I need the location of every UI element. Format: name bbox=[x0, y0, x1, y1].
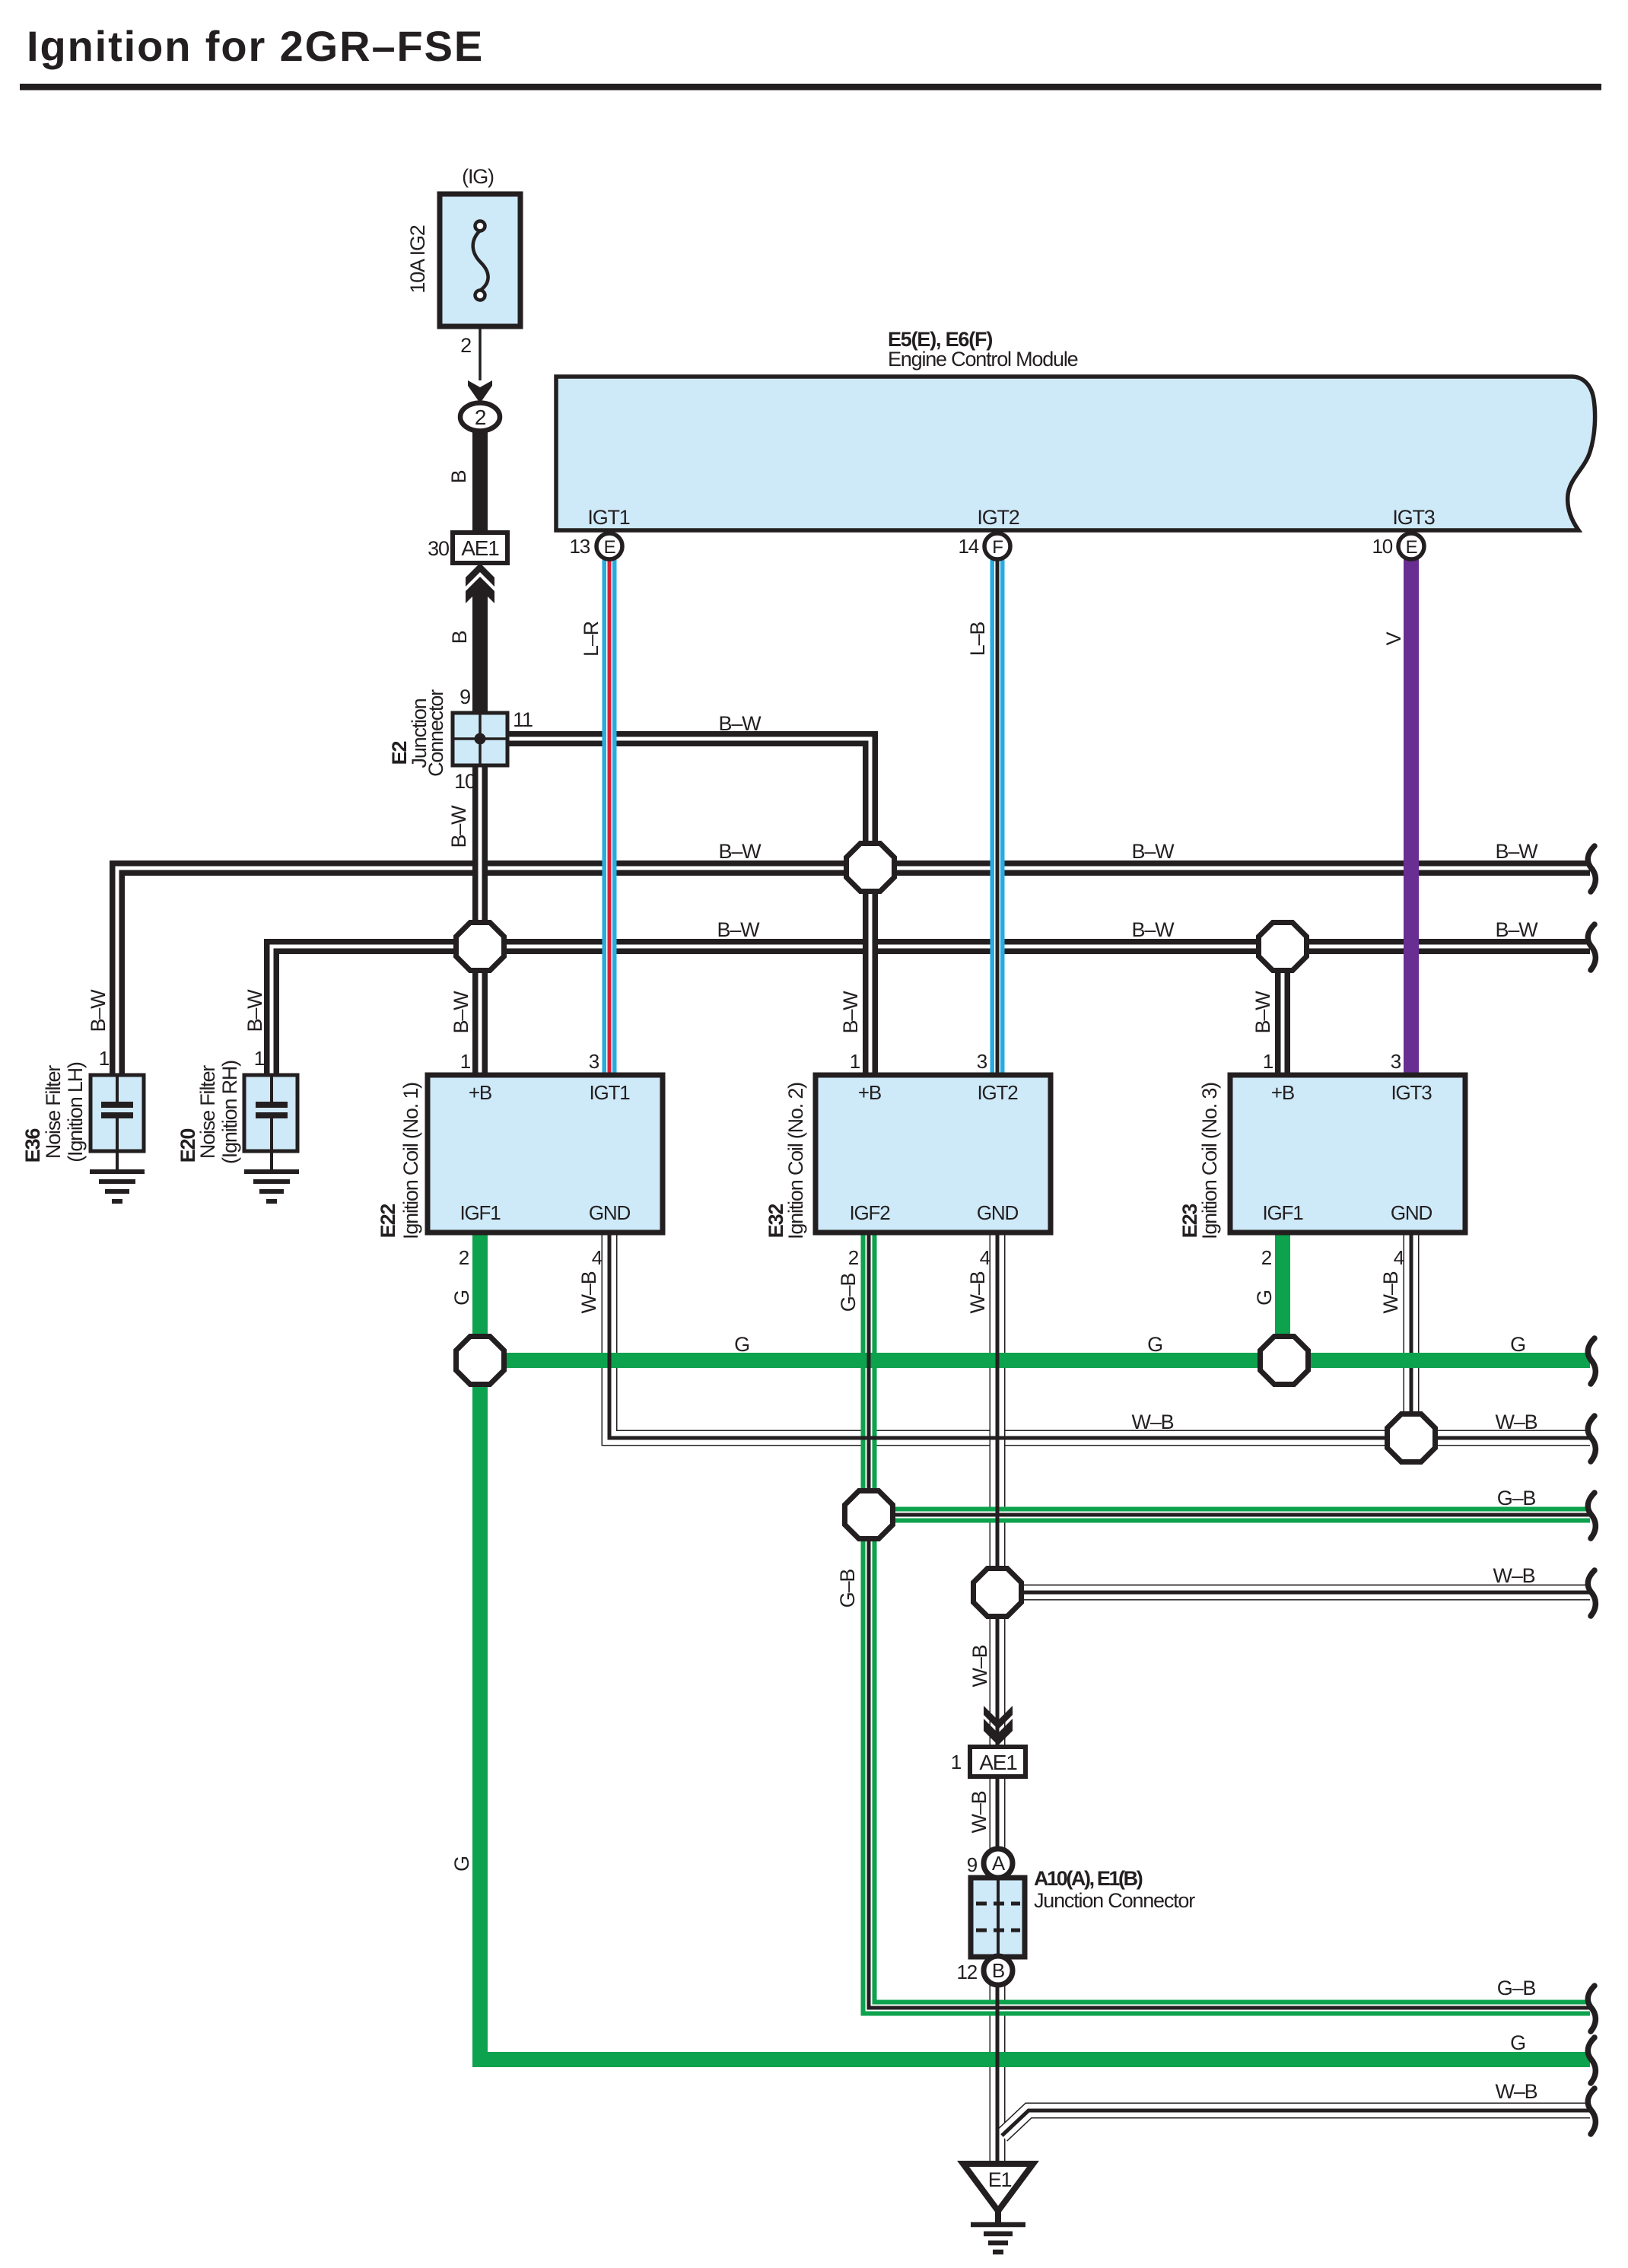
svg-text:G–B: G–B bbox=[1497, 1977, 1536, 1999]
label E32 bbox=[765, 1204, 787, 1239]
arrow down to AE1 opening 1 bbox=[984, 1706, 1013, 1745]
label E23 bbox=[1178, 1204, 1201, 1239]
svg-text:(Ignition LH): (Ignition LH) bbox=[64, 1062, 87, 1163]
svg-text:14: 14 bbox=[958, 535, 978, 558]
svg-text:B–W: B–W bbox=[87, 989, 110, 1032]
ignition coil No.1 E22 box bbox=[428, 1075, 663, 1233]
label B-W drop E36 bbox=[87, 989, 110, 1032]
svg-text:Engine Control Module: Engine Control Module bbox=[888, 348, 1078, 371]
label IGT2 (ECM) bbox=[977, 506, 1019, 529]
ignition coil No.3 E23 pin labels bbox=[1263, 1081, 1432, 1224]
svg-text:Noise Filter: Noise Filter bbox=[42, 1065, 65, 1159]
svg-text:W–B: W–B bbox=[1132, 1411, 1174, 1433]
svg-text:4: 4 bbox=[592, 1246, 603, 1269]
label Junction Connector bbox=[1034, 1889, 1195, 1912]
svg-text:W–B: W–B bbox=[1493, 1564, 1535, 1587]
label B-W line2 left bbox=[717, 918, 761, 941]
pin 9 circle A bbox=[967, 1849, 1013, 1878]
label E22 bbox=[377, 1204, 399, 1239]
svg-text:Connector: Connector bbox=[424, 689, 447, 777]
connector oval 2 bbox=[460, 403, 500, 431]
wire G from coil 1 IGF1 to junction J4 bbox=[472, 1233, 488, 1360]
ignition coil No.2 E32 pin labels bbox=[850, 1081, 1019, 1224]
svg-text:4: 4 bbox=[980, 1246, 990, 1269]
svg-text:10: 10 bbox=[1372, 535, 1392, 558]
label B-W line1 mid bbox=[1132, 840, 1175, 863]
label W-B bus right bbox=[1496, 1411, 1537, 1433]
svg-text:E: E bbox=[604, 537, 615, 558]
svg-text:Noise Filter: Noise Filter bbox=[196, 1065, 219, 1159]
wire W-B from coil 1 GND via junction J6 to right break bbox=[609, 1233, 1590, 1438]
label Noise Filter (E36) bbox=[42, 1065, 65, 1159]
svg-text:2: 2 bbox=[459, 1246, 469, 1269]
title underline bbox=[20, 84, 1601, 91]
label pin 10 bbox=[454, 770, 475, 793]
label G lower right bbox=[1510, 2031, 1525, 2054]
wire B from connector 2 to AE1 opening 30 bbox=[472, 428, 488, 534]
svg-text:W–B: W–B bbox=[577, 1271, 600, 1313]
junction J5 splice bbox=[1261, 1337, 1308, 1385]
pin 14 circle F bbox=[958, 533, 1010, 559]
label W-B coil1 GND bbox=[577, 1271, 600, 1313]
fuse element bbox=[473, 221, 488, 301]
svg-text:(Ignition RH): (Ignition RH) bbox=[218, 1061, 241, 1164]
pin 12 circle B bbox=[956, 1956, 1013, 1985]
label B-W drop coil1 bbox=[450, 991, 472, 1034]
break B-W line 2 bbox=[1588, 924, 1595, 970]
svg-text:+B: +B bbox=[469, 1081, 491, 1104]
label B-W (E2 out) bbox=[719, 712, 762, 735]
label 1 (AE1) bbox=[951, 1751, 962, 1773]
svg-text:9: 9 bbox=[967, 1853, 978, 1876]
junction J2 splice bbox=[456, 923, 504, 971]
wire W-B from coil 2 GND through junction J8 to ground E1 bbox=[990, 1233, 1006, 2165]
label Engine Control Module bbox=[888, 348, 1078, 371]
label W-B below AE1 bbox=[968, 1791, 990, 1833]
label G long run bbox=[450, 1856, 473, 1872]
svg-text:11: 11 bbox=[513, 708, 533, 731]
svg-text:+B: +B bbox=[858, 1081, 881, 1104]
ECM E5/E6 box bbox=[556, 377, 1595, 530]
pin 13 circle E bbox=[569, 533, 622, 559]
svg-text:E36: E36 bbox=[21, 1128, 44, 1163]
label (IG) bbox=[462, 165, 494, 188]
label IGT3 (ECM) bbox=[1392, 506, 1434, 529]
svg-text:G: G bbox=[1147, 1333, 1162, 1356]
wire L-R from ECM IGT1 to coil 1 IGT1 bbox=[603, 558, 617, 1074]
svg-text:W–B: W–B bbox=[1496, 2080, 1537, 2103]
svg-text:B–W: B–W bbox=[1132, 918, 1175, 941]
svg-text:G: G bbox=[1510, 1333, 1525, 1356]
label W-B coil3 GND bbox=[1379, 1271, 1402, 1313]
label B-W line1 left bbox=[719, 840, 762, 863]
label E20 bbox=[176, 1129, 199, 1163]
svg-text:E: E bbox=[1406, 537, 1417, 558]
svg-text:Ignition Coil (No. 2): Ignition Coil (No. 2) bbox=[784, 1083, 807, 1239]
label L-B bbox=[966, 622, 989, 657]
svg-text:W–B: W–B bbox=[968, 1791, 990, 1833]
label B-W drop E20 bbox=[243, 989, 266, 1032]
junction J6 splice bbox=[1388, 1414, 1436, 1462]
wire W-B from junction J8 to right break bbox=[997, 1585, 1590, 1601]
svg-text:G: G bbox=[1510, 2031, 1525, 2054]
svg-text:IGF1: IGF1 bbox=[1263, 1201, 1304, 1224]
label G-B below J7 bbox=[836, 1570, 859, 1608]
break G-B lower bbox=[1588, 1986, 1595, 2031]
ignition coil No.2 E32 pin numbers bbox=[848, 1050, 990, 1269]
svg-text:A10(A), E1(B): A10(A), E1(B) bbox=[1034, 1867, 1143, 1890]
svg-text:+B: +B bbox=[1271, 1081, 1294, 1104]
svg-text:10A IG2: 10A IG2 bbox=[406, 225, 429, 293]
label Connector bbox=[424, 689, 447, 777]
label Ignition Coil (No. 1) bbox=[399, 1083, 422, 1239]
svg-text:B: B bbox=[992, 1959, 1004, 1982]
svg-text:2: 2 bbox=[848, 1246, 859, 1269]
connector AE1 opening 30 box bbox=[453, 533, 507, 563]
label G coil1 IGF1 bbox=[450, 1290, 473, 1306]
svg-text:B–W: B–W bbox=[839, 991, 862, 1034]
label 10A IG2 bbox=[406, 225, 429, 293]
wire V from ECM IGT3 to coil 3 IGT3 bbox=[1404, 558, 1419, 1074]
label B-W (E2 down) bbox=[447, 805, 470, 848]
fuse 10A IG2 (IG) box bbox=[440, 194, 520, 326]
label 30 bbox=[428, 537, 449, 560]
svg-text:IGT1: IGT1 bbox=[587, 506, 629, 529]
svg-text:Ignition for 2GR–FSE: Ignition for 2GR–FSE bbox=[27, 22, 484, 70]
svg-text:2: 2 bbox=[475, 406, 486, 429]
svg-text:G–B: G–B bbox=[837, 1274, 860, 1312]
svg-text:IGT3: IGT3 bbox=[1391, 1081, 1432, 1104]
svg-text:IGT3: IGT3 bbox=[1392, 506, 1434, 529]
junction connector E2 box bbox=[453, 713, 507, 765]
svg-text:Junction Connector: Junction Connector bbox=[1034, 1889, 1195, 1912]
svg-text:1: 1 bbox=[951, 1751, 962, 1773]
label IGT1 (ECM) bbox=[587, 506, 629, 529]
svg-text:2: 2 bbox=[460, 334, 471, 357]
svg-text:B: B bbox=[447, 470, 470, 483]
svg-text:GND: GND bbox=[1391, 1201, 1432, 1224]
wire B-W from junction J3 to coil 3 +B bbox=[1275, 946, 1290, 1075]
svg-text:IGF1: IGF1 bbox=[460, 1201, 501, 1224]
wire G-B from coil 2 IGF2 via junction J7 to lower right break bbox=[869, 1233, 1590, 2008]
wire G long run from junction J4 to lower right break bbox=[480, 1360, 1590, 2060]
label A10(A), E1(B) bbox=[1034, 1867, 1143, 1890]
svg-text:GND: GND bbox=[977, 1201, 1019, 1224]
svg-text:B–W: B–W bbox=[447, 805, 470, 848]
noise filter E36 capacitor bbox=[91, 1075, 144, 1172]
arrow down to connector 2 bbox=[468, 380, 492, 403]
wire G from coil 3 IGF1 to junction J5 bbox=[1275, 1233, 1290, 1360]
label Ignition Coil (No. 3) bbox=[1198, 1083, 1221, 1239]
break G-B branch bbox=[1588, 1493, 1595, 1538]
svg-text:B–W: B–W bbox=[717, 918, 761, 941]
svg-text:W–B: W–B bbox=[968, 1645, 991, 1687]
label pin1 E20 bbox=[254, 1047, 265, 1070]
title Ignition for 2GR-FSE bbox=[27, 22, 484, 70]
label G bus right bbox=[1510, 1333, 1525, 1356]
ground E1 triangle bbox=[963, 2164, 1033, 2223]
svg-text:IGT2: IGT2 bbox=[977, 506, 1019, 529]
svg-text:IGF2: IGF2 bbox=[850, 1201, 891, 1224]
wire B-W from E2 pin 11 to junction J1 bbox=[507, 739, 870, 867]
pin 10 circle E bbox=[1372, 533, 1424, 559]
svg-text:F: F bbox=[992, 537, 1003, 558]
arrow up from AE1 bbox=[466, 563, 494, 603]
break B-W line 1 bbox=[1588, 846, 1595, 892]
svg-text:B–W: B–W bbox=[450, 991, 472, 1034]
svg-text:B–W: B–W bbox=[243, 989, 266, 1032]
ground symbol (E1) bbox=[971, 2225, 1025, 2252]
wire B-W bus line 2 (E20 to right break) bbox=[272, 946, 1590, 1075]
svg-text:Ignition Coil (No. 1): Ignition Coil (No. 1) bbox=[399, 1083, 422, 1239]
label B (fuse feed) bbox=[447, 470, 470, 483]
svg-text:B–W: B–W bbox=[1496, 918, 1539, 941]
wire B-W bus line 1 (E36 to right break) bbox=[117, 868, 1590, 1075]
svg-text:L–B: L–B bbox=[966, 622, 989, 657]
ignition coil No.3 E23 pin numbers bbox=[1261, 1050, 1404, 1269]
svg-text:3: 3 bbox=[977, 1050, 987, 1073]
ground (E36) bbox=[90, 1172, 145, 1201]
svg-text:AE1: AE1 bbox=[979, 1751, 1017, 1774]
svg-text:3: 3 bbox=[589, 1050, 599, 1073]
label G-B branch right bbox=[1497, 1487, 1536, 1509]
label (Ignition RH) bbox=[218, 1061, 241, 1164]
svg-text:12: 12 bbox=[956, 1961, 977, 1983]
label G coil3 IGF1 bbox=[1253, 1290, 1276, 1306]
svg-text:B–W: B–W bbox=[1496, 840, 1539, 863]
label E5(E), E6(F) bbox=[888, 328, 992, 351]
svg-text:9: 9 bbox=[459, 685, 470, 708]
label B-W drop coil2 bbox=[839, 991, 862, 1034]
svg-text:B–W: B–W bbox=[1251, 991, 1274, 1034]
svg-text:13: 13 bbox=[569, 535, 590, 558]
label B-W drop coil3 bbox=[1251, 991, 1274, 1034]
ignition coil No.1 E22 pin labels bbox=[460, 1081, 631, 1224]
label E36 bbox=[21, 1128, 44, 1163]
label pin 9 bbox=[459, 685, 470, 708]
stripe repaint W-B vertical bbox=[996, 1233, 1000, 2165]
label G bus left bbox=[734, 1333, 749, 1356]
break W-B gnd bus bbox=[1588, 1416, 1595, 1462]
break W-B lower bbox=[1588, 2088, 1595, 2134]
junction J8 splice bbox=[974, 1569, 1022, 1617]
junction J4 splice bbox=[456, 1337, 504, 1385]
label B-W line2 mid bbox=[1132, 918, 1175, 941]
svg-text:A: A bbox=[992, 1852, 1006, 1875]
svg-text:AE1: AE1 bbox=[461, 536, 499, 560]
junction J3 splice bbox=[1259, 923, 1307, 971]
label Junction bbox=[408, 698, 431, 768]
wire from fuse pin 2 to arrow bbox=[479, 301, 482, 380]
svg-text:L–R: L–R bbox=[580, 621, 603, 657]
svg-text:G: G bbox=[734, 1333, 749, 1356]
stripe repaint W-B gnd1 run bbox=[609, 1233, 1590, 1438]
svg-text:W–B: W–B bbox=[1496, 1411, 1537, 1433]
label W-B bus mid bbox=[1132, 1411, 1174, 1433]
ground (E20) bbox=[244, 1172, 299, 1201]
break G bus bbox=[1588, 1338, 1595, 1384]
label pin 11 bbox=[513, 708, 533, 731]
svg-text:B: B bbox=[448, 631, 471, 644]
label G-B coil2 IGF2 bbox=[837, 1274, 860, 1312]
label (Ignition LH) bbox=[64, 1062, 87, 1163]
svg-text:3: 3 bbox=[1391, 1050, 1401, 1073]
ignition coil No.3 E23 box bbox=[1230, 1075, 1465, 1233]
label W-B coil2 GND bbox=[966, 1271, 989, 1313]
wire L-B from ECM IGT2 to coil 2 IGT2 bbox=[990, 558, 1005, 1074]
svg-text:GND: GND bbox=[589, 1201, 631, 1224]
label B-W line1 right bbox=[1496, 840, 1539, 863]
wire W-B from coil 3 GND to junction J6 bbox=[1404, 1233, 1420, 1438]
svg-text:1: 1 bbox=[850, 1050, 860, 1073]
ignition coil No.1 E22 pin numbers bbox=[459, 1050, 603, 1269]
break G lower bbox=[1588, 2037, 1595, 2083]
ignition coil No.2 E32 box bbox=[816, 1075, 1051, 1233]
stripe repaint G-B run bbox=[869, 1233, 1590, 2008]
svg-text:E22: E22 bbox=[377, 1204, 399, 1239]
connector AE1 opening 1 box bbox=[970, 1747, 1025, 1777]
label Ignition Coil (No. 2) bbox=[784, 1083, 807, 1239]
wire B-W from E2 pin 10 to coil 1 +B bbox=[472, 765, 488, 1075]
svg-text:(IG): (IG) bbox=[462, 165, 494, 188]
svg-text:Ignition Coil (No. 3): Ignition Coil (No. 3) bbox=[1198, 1083, 1221, 1239]
label B (to E2) bbox=[448, 631, 471, 644]
svg-text:IGT1: IGT1 bbox=[590, 1081, 631, 1104]
svg-text:G: G bbox=[450, 1290, 473, 1306]
stripe repaint G-B branch bbox=[869, 1513, 1590, 1517]
noise filter E20 capacitor bbox=[244, 1075, 297, 1172]
svg-text:B–W: B–W bbox=[719, 712, 762, 735]
svg-text:W–B: W–B bbox=[1379, 1271, 1402, 1313]
label fuse pin 2 bbox=[460, 334, 471, 357]
wire G-B from junction J7 to right break bbox=[869, 1507, 1590, 1523]
svg-text:V: V bbox=[1382, 631, 1405, 645]
label W-B below J8 bbox=[968, 1645, 991, 1687]
svg-text:IGT2: IGT2 bbox=[978, 1081, 1019, 1104]
svg-text:G: G bbox=[450, 1856, 473, 1872]
wire B-W from junction J1 to coil 2 +B bbox=[863, 867, 878, 1074]
label W-B branch right bbox=[1493, 1564, 1535, 1587]
junction J1 splice bbox=[847, 844, 895, 892]
label G bus mid bbox=[1147, 1333, 1162, 1356]
svg-text:10: 10 bbox=[454, 770, 475, 793]
svg-text:1: 1 bbox=[1263, 1050, 1273, 1073]
wire G bus junction J4 to junction J5 to right break bbox=[480, 1353, 1590, 1368]
svg-text:G: G bbox=[1253, 1290, 1276, 1306]
svg-text:1: 1 bbox=[254, 1047, 265, 1070]
label B-W line2 right bbox=[1496, 918, 1539, 941]
label pin1 E36 bbox=[99, 1047, 110, 1070]
svg-text:G–B: G–B bbox=[836, 1570, 859, 1608]
break W-B branch bbox=[1588, 1570, 1595, 1616]
svg-text:G–B: G–B bbox=[1497, 1487, 1536, 1509]
label Noise Filter (E20) bbox=[196, 1065, 219, 1159]
svg-text:B–W: B–W bbox=[1132, 840, 1175, 863]
svg-text:B–W: B–W bbox=[719, 840, 762, 863]
wire B from arrow to junction connector E2 bbox=[472, 587, 488, 715]
svg-text:W–B: W–B bbox=[966, 1271, 989, 1313]
label V bbox=[1382, 631, 1405, 645]
label G-B lower right bbox=[1497, 1977, 1536, 1999]
svg-text:1: 1 bbox=[460, 1050, 471, 1073]
label E2 bbox=[388, 742, 411, 765]
label W-B lower right bbox=[1496, 2080, 1537, 2103]
svg-text:1: 1 bbox=[99, 1047, 110, 1070]
svg-text:4: 4 bbox=[1394, 1246, 1404, 1269]
svg-text:30: 30 bbox=[428, 537, 449, 560]
label L-R bbox=[580, 621, 603, 657]
svg-text:2: 2 bbox=[1261, 1246, 1272, 1269]
junction J7 splice bbox=[845, 1491, 893, 1539]
junction connector A10/E1 box bbox=[971, 1878, 1025, 1957]
svg-text:E1: E1 bbox=[988, 2168, 1012, 2191]
wire W-B branch to lower right break bbox=[1002, 2111, 1590, 2136]
